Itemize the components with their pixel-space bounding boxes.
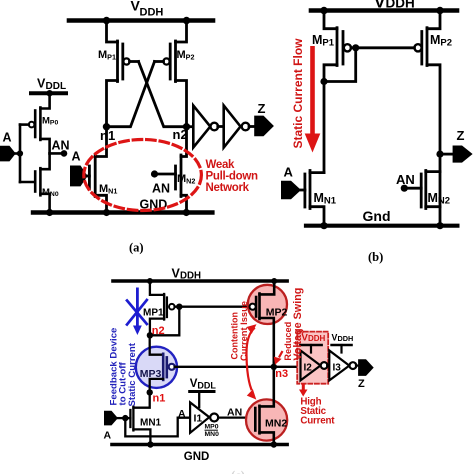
- transistor MN1 (a): [88, 127, 107, 213]
- junction VDDH-MP1 (b): [320, 7, 327, 14]
- contention MN2 highlight circle (c): [246, 399, 287, 440]
- svg-text:A: A: [178, 408, 186, 420]
- junction VDDH-MP2 (b): [436, 7, 443, 14]
- static current red arrow (b): [305, 46, 321, 153]
- wire AN stub (b): [404, 187, 421, 190]
- transistor MP1 (c): [150, 281, 175, 335]
- junction Z (b): [436, 151, 443, 158]
- svg-text:Static Current Flow: Static Current Flow: [291, 38, 305, 149]
- wire A arrow to node (c): [118, 417, 125, 419]
- transistor MP1 (b): [324, 11, 351, 173]
- wire cross-couple MP1 gate to n2: [139, 62, 187, 127]
- transistor MN0 (a): [20, 153, 50, 210]
- svg-text:GND: GND: [184, 451, 210, 463]
- junction VDDH-MP2 (c): [271, 278, 277, 284]
- VDDH rail (b): [311, 8, 457, 13]
- junction VDDH-MP2: [183, 17, 190, 24]
- svg-text:Z: Z: [258, 101, 266, 116]
- junction gate bus (b): [352, 44, 359, 51]
- contention MP2 highlight circle (c): [248, 285, 287, 324]
- node AN dot (a): [61, 150, 68, 157]
- svg-text:AN: AN: [227, 407, 242, 419]
- output inverter 1 (a): [193, 106, 218, 148]
- svg-text:I1: I1: [194, 413, 203, 425]
- junction A-stem (a): [17, 150, 23, 156]
- annotation Feedback Device to Cut-off Static Current (c): [108, 328, 138, 407]
- output arrow Z (b): [453, 146, 473, 163]
- wire I2 to I3 (c): [327, 364, 329, 366]
- transistor MN2 (a): [176, 127, 187, 213]
- wire VDDH stub I3 (c): [340, 345, 342, 353]
- reduced swing arrow to n3 (c): [274, 352, 282, 365]
- VDDH supply bar I2 (c): [301, 344, 322, 347]
- label MP0/MN0 under I1 (c): [205, 424, 220, 439]
- inverter I3 (c): [329, 351, 356, 381]
- wire VDDH stub I2 (c): [310, 345, 312, 353]
- svg-text:I2: I2: [304, 363, 313, 374]
- svg-text:Z: Z: [358, 378, 365, 390]
- output arrow Z (a): [254, 116, 274, 137]
- wire inverter1 to inverter2 (a): [218, 125, 224, 128]
- svg-text:A: A: [3, 131, 12, 145]
- transistor MN2 (c): [255, 367, 273, 445]
- svg-text:A: A: [284, 165, 294, 180]
- wire diode connection MP1 (b): [324, 48, 356, 82]
- svg-text:MP3: MP3: [140, 368, 162, 380]
- Gnd rail (b): [306, 224, 457, 228]
- I2 high static current dashed box (c): [297, 332, 328, 384]
- junction VDDH-MP1: [103, 17, 110, 24]
- transistor MN2 (b): [421, 171, 440, 209]
- svg-text:VDDH: VDDH: [332, 332, 354, 343]
- VDDH rail (c): [113, 279, 287, 283]
- GND rail (a): [33, 210, 212, 214]
- wire cross-couple MP2 gate to n1: [107, 62, 155, 127]
- VDDH rail (a): [69, 18, 213, 23]
- wire I3 to Z (c): [356, 365, 358, 367]
- wire gate bus MP1-MP2 (c): [175, 306, 250, 308]
- svg-text:I3: I3: [333, 362, 342, 373]
- node n3 junction (c): [271, 364, 277, 370]
- node AN dot (b): [401, 185, 408, 192]
- svg-text:VDDH: VDDH: [374, 0, 415, 11]
- transistor MP0 (a): [20, 93, 50, 153]
- transistor MP2 (a): [155, 21, 187, 127]
- VDDH supply bar I3 (c): [332, 344, 352, 347]
- junction Gnd-MN1 (b): [320, 222, 327, 229]
- weak pull-down ellipse (a): [84, 140, 202, 211]
- svg-text:Gnd: Gnd: [363, 208, 391, 224]
- wire inverter2 to Z (a): [249, 125, 254, 128]
- junction gate bus (c): [176, 304, 182, 310]
- svg-text:n3: n3: [275, 368, 288, 380]
- svg-text:Static Current: Static Current: [127, 342, 138, 406]
- svg-text:n1: n1: [153, 393, 166, 405]
- wire Z (b): [440, 153, 453, 156]
- transistor MN1 (c): [125, 392, 150, 444]
- junction VDDL-MP0: [46, 90, 52, 96]
- transistor MN1 (b): [301, 171, 324, 226]
- svg-text:AN: AN: [396, 172, 415, 187]
- junction GND-MN2 (c): [271, 441, 277, 447]
- junction VDDH-MP1 (c): [147, 278, 153, 284]
- svg-text:VDDL: VDDL: [190, 378, 217, 391]
- inverter I2 (c): [301, 351, 328, 381]
- svg-text:A: A: [104, 430, 112, 442]
- GND rail (c): [112, 443, 287, 447]
- transistor MP1 (a): [107, 21, 139, 127]
- transistor MP3 (c): [150, 335, 175, 392]
- output inverter 2 (a): [224, 106, 250, 148]
- svg-text:MN1: MN1: [140, 417, 162, 428]
- wire AN stub to MN2 gate (a): [155, 173, 176, 176]
- input arrow A (a): [0, 146, 16, 162]
- blue cutoff X (c): [127, 300, 147, 325]
- svg-text:MP0: MP0: [205, 424, 219, 431]
- VDDL supply bar I1 (c): [190, 390, 214, 393]
- junction Gnd-MN2 (b): [436, 222, 443, 229]
- junction A node (c): [122, 415, 128, 421]
- svg-text:AN: AN: [52, 138, 70, 152]
- svg-text:n2: n2: [152, 325, 165, 337]
- svg-text:MP2: MP2: [266, 307, 288, 319]
- svg-text:Voltage Swing: Voltage Swing: [292, 288, 304, 361]
- junction GND-MN2: [183, 209, 190, 216]
- svg-text:Z: Z: [457, 128, 465, 143]
- svg-text:MN0: MN0: [205, 431, 220, 438]
- input arrow A (b): [281, 181, 301, 200]
- svg-text:VDDH: VDDH: [302, 333, 326, 344]
- junction GND-MN1: [103, 209, 110, 216]
- blue cutoff arrow (c): [133, 288, 142, 336]
- svg-text:(b): (b): [368, 250, 383, 264]
- wire AN to MN2 gate (c): [218, 416, 255, 418]
- feedback device MP3 highlight circle (c): [136, 347, 177, 388]
- inverter I1 (c): [190, 402, 218, 432]
- wire A to I1 input (c): [125, 418, 190, 437]
- svg-text:MP1: MP1: [143, 308, 164, 319]
- wire gate bus MP1-MP2 (b): [351, 46, 414, 49]
- junction GND-MN0: [46, 209, 53, 216]
- red arrow high static current (c): [299, 384, 308, 397]
- node n1 junction (c): [147, 389, 153, 395]
- svg-text:(a): (a): [129, 241, 144, 255]
- wire AN output (a): [50, 152, 64, 155]
- transistor MP2 (c): [250, 281, 275, 367]
- wire n2 to gate bus (c): [150, 307, 179, 336]
- VDDL supply bar (a): [31, 91, 66, 95]
- annotation Contention Current Issue (c): [230, 301, 249, 361]
- wire n3 bus MP3 gate to I2 (c): [175, 366, 301, 368]
- junction GND-MN1 (c): [147, 441, 153, 447]
- junction MP1 drain (b): [320, 78, 327, 85]
- wire input stem inverter (a): [19, 125, 22, 182]
- transistor MP2 (b): [414, 11, 440, 226]
- svg-text:(c): (c): [231, 469, 245, 474]
- node n2 junction (c): [147, 332, 153, 338]
- svg-text:A: A: [72, 150, 81, 164]
- output arrow Z (c): [358, 359, 374, 376]
- node n1 junction: [103, 123, 110, 130]
- node AN terminal dot (a): [151, 170, 158, 177]
- svg-text:MN2: MN2: [265, 417, 287, 429]
- wire n2 to inverter I1 chain (a): [187, 125, 194, 128]
- input arrow A for MN1 (a): [70, 166, 88, 187]
- wire VDDL stub (c): [198, 392, 200, 408]
- input arrow A (c): [104, 411, 118, 426]
- wire A arrow to stem (a): [16, 152, 20, 155]
- contention curved double arrow (c): [246, 324, 256, 399]
- node n2 junction: [183, 123, 190, 130]
- annotation Reduced Voltage Swing (c): [283, 288, 304, 361]
- svg-text:AN: AN: [152, 182, 170, 196]
